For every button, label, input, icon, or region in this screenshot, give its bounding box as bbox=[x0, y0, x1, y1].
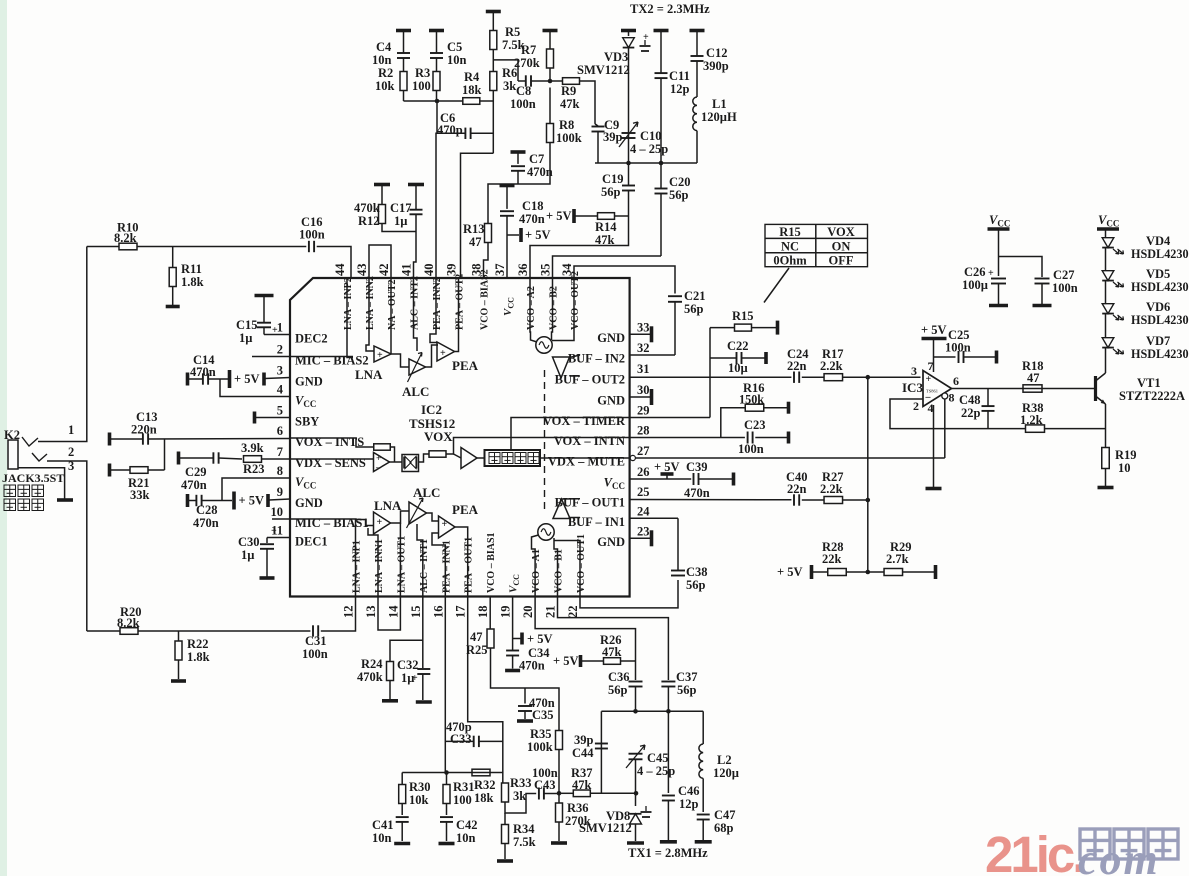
wire C23 to terminal bbox=[755, 437, 787, 439]
wire VOX amp to limiter bbox=[390, 461, 403, 463]
svg-text:C31: C31 bbox=[305, 634, 327, 648]
wire VCO1 left arm to pin20 bbox=[532, 535, 539, 597]
+5V terminal R28 bbox=[810, 565, 814, 579]
svg-text:PEA: PEA bbox=[452, 502, 479, 517]
svg-text:47: 47 bbox=[1027, 371, 1040, 385]
svg-text:15: 15 bbox=[409, 606, 423, 619]
wire Vcc to C26 C27 bbox=[998, 229, 1000, 276]
svg-text:3k: 3k bbox=[503, 79, 516, 93]
svg-text:C11: C11 bbox=[669, 69, 690, 83]
wire comparator to status box bbox=[477, 457, 485, 459]
VCO2 oscillator circle bbox=[536, 337, 552, 353]
svg-text:24: 24 bbox=[637, 504, 650, 518]
resistor R8 bbox=[549, 88, 551, 124]
svg-text:+ 5V: + 5V bbox=[525, 228, 551, 242]
wire pin27 row VDX-MUTE to op-amp pin8 bbox=[630, 455, 635, 460]
wire limiter to VOX series resistor bbox=[419, 454, 429, 462]
wire C25 to terminal bbox=[964, 356, 995, 358]
svg-text:2: 2 bbox=[277, 343, 283, 357]
buffer BUF2 triangle bbox=[553, 357, 570, 378]
resistor R33 bbox=[502, 773, 504, 784]
resistor R26 bbox=[604, 658, 621, 665]
resistor R15 bbox=[735, 324, 752, 331]
svg-text:OFF: OFF bbox=[829, 253, 854, 267]
svg-text:470n: 470n bbox=[193, 516, 219, 530]
svg-text:47k: 47k bbox=[560, 97, 580, 111]
svg-text:GND: GND bbox=[295, 496, 323, 510]
resistor R31 bbox=[446, 773, 448, 785]
jack K2 body bbox=[8, 440, 18, 469]
wire R35 to node bbox=[558, 750, 560, 794]
svg-text:40: 40 bbox=[422, 264, 436, 277]
variable capacitor C10 bbox=[622, 132, 636, 134]
wire pin29 VOX-TIMER to R15 riser bbox=[630, 417, 710, 419]
C34 ground bar bbox=[505, 669, 520, 673]
svg-text:21: 21 bbox=[544, 606, 558, 619]
capacitor C22 bbox=[736, 352, 738, 364]
junction dot VD8 node bbox=[634, 791, 639, 796]
svg-text:47: 47 bbox=[469, 235, 482, 249]
wire R29 to terminal bbox=[903, 571, 934, 573]
ALC arrow lower bbox=[407, 498, 424, 528]
svg-text:4 – 25p: 4 – 25p bbox=[637, 764, 675, 778]
bottom pin numbers 12-22 bbox=[342, 605, 581, 618]
IC3 ground stem bbox=[933, 405, 935, 487]
svg-text:VCC: VCC bbox=[508, 574, 522, 593]
wire C17 down to pin 41 bbox=[414, 215, 417, 279]
svg-text:19: 19 bbox=[499, 606, 513, 619]
wire IC3 output row bbox=[952, 388, 1095, 390]
svg-text:16: 16 bbox=[431, 606, 445, 619]
svg-text:120µ: 120µ bbox=[713, 766, 739, 780]
svg-text:HSDL4230: HSDL4230 bbox=[1131, 313, 1189, 327]
wire VCO2 left arm to pin36 bbox=[530, 278, 537, 342]
wire C22 leads and terminal bbox=[710, 357, 736, 359]
LED VD4 bbox=[1102, 238, 1114, 248]
svg-text:R30: R30 bbox=[409, 780, 431, 794]
svg-text:8.2k: 8.2k bbox=[114, 231, 137, 245]
svg-text:+ 5V: + 5V bbox=[546, 209, 572, 223]
svg-text:BUF – IN2: BUF – IN2 bbox=[568, 352, 625, 366]
svg-text:C23: C23 bbox=[744, 418, 766, 432]
svg-text:VCC: VCC bbox=[295, 475, 316, 491]
svg-text:C37: C37 bbox=[676, 670, 698, 684]
capacitor C7 bbox=[517, 152, 519, 164]
resistor R38 bbox=[1026, 425, 1045, 432]
svg-text:+ 5V: + 5V bbox=[654, 460, 680, 474]
capacitor C25 bbox=[934, 356, 956, 358]
inductor L1 bbox=[693, 97, 697, 131]
C26 ground bar bbox=[989, 304, 1008, 308]
svg-text:C32: C32 bbox=[397, 658, 419, 672]
capacitor C37 bbox=[661, 681, 675, 683]
LED VD5 bbox=[1102, 271, 1114, 281]
svg-text:4 – 25p: 4 – 25p bbox=[630, 142, 668, 156]
svg-text:VCC: VCC bbox=[604, 476, 625, 492]
wire R37 to VD8 node bbox=[559, 792, 573, 794]
svg-text:2.2k: 2.2k bbox=[820, 359, 843, 373]
wire C19 branch to pin 36 bbox=[530, 243, 629, 278]
capacitor C13 bbox=[142, 433, 144, 444]
wire pin34 to VCO2 bbox=[552, 278, 574, 341]
svg-text:32: 32 bbox=[637, 341, 650, 355]
svg-text:C26: C26 bbox=[964, 265, 986, 279]
svg-text:+: + bbox=[926, 374, 932, 385]
svg-text:33k: 33k bbox=[130, 488, 150, 502]
svg-text:2.7k: 2.7k bbox=[886, 552, 909, 566]
svg-text:470n: 470n bbox=[684, 486, 710, 500]
capacitor C41 bbox=[396, 816, 409, 818]
svg-text:100n: 100n bbox=[1052, 281, 1078, 295]
C46 ground bar bbox=[660, 840, 677, 844]
wire C24 to R17 bbox=[802, 376, 824, 378]
resistor R16 bbox=[745, 404, 764, 411]
wire C45 to VD8 bbox=[635, 759, 637, 806]
svg-text:+: + bbox=[442, 519, 448, 530]
svg-text:22n: 22n bbox=[787, 359, 807, 373]
svg-text:100n: 100n bbox=[299, 228, 325, 242]
svg-text:VD7: VD7 bbox=[1146, 334, 1170, 348]
capacitor C33 bbox=[473, 736, 475, 747]
svg-text:VCC: VCC bbox=[989, 213, 1010, 229]
wire SBY stub bbox=[256, 417, 291, 419]
svg-text:C47: C47 bbox=[714, 808, 736, 822]
capacitor C31 bbox=[312, 625, 314, 636]
svg-text:R11: R11 bbox=[181, 262, 202, 276]
pin 9 terminal bar bbox=[266, 494, 270, 507]
svg-text:R25: R25 bbox=[466, 643, 488, 657]
caption 入插座 fake glyphs bbox=[4, 499, 44, 511]
wire K2 ring down to R20 row bbox=[47, 461, 87, 631]
svg-text:47: 47 bbox=[470, 630, 483, 644]
wire C28 to +5V and pin8 branch bbox=[189, 500, 196, 502]
svg-text:R4: R4 bbox=[464, 70, 480, 84]
svg-text:6: 6 bbox=[953, 374, 959, 388]
svg-text:9: 9 bbox=[277, 485, 283, 499]
svg-text:C27: C27 bbox=[1053, 268, 1075, 282]
capacitor C17 terminal bbox=[408, 183, 424, 187]
svg-text:VD3: VD3 bbox=[604, 50, 628, 64]
wire K2 sleeve to ground bbox=[18, 468, 65, 499]
op-amp LNA upper bbox=[374, 346, 391, 362]
wire LNA output to pin42 and ALC bbox=[391, 354, 409, 367]
wire pin15 to ALC1 bbox=[417, 524, 423, 597]
svg-text:ALC: ALC bbox=[413, 485, 440, 500]
resistor R25 bbox=[487, 629, 494, 648]
capacitor C5 terminal bbox=[429, 29, 444, 33]
svg-text:3: 3 bbox=[277, 364, 283, 378]
svg-text:R35: R35 bbox=[530, 727, 552, 741]
svg-text:1µ: 1µ bbox=[394, 214, 407, 228]
svg-text:390p: 390p bbox=[703, 59, 729, 73]
wire pin25 row BUF-OUT1 to C40 bbox=[630, 499, 792, 501]
wire R15 leads and terminal bbox=[710, 327, 735, 329]
R11 bottom terminal bar bbox=[166, 305, 180, 309]
feedback row R38 wire bbox=[988, 428, 1026, 430]
svg-text:VCO – B1: VCO – B1 bbox=[554, 549, 565, 593]
op-amp ALC upper bbox=[409, 359, 426, 375]
svg-text:27: 27 bbox=[637, 444, 650, 458]
svg-text:VOX – INTS: VOX – INTS bbox=[295, 435, 364, 449]
svg-text:C7: C7 bbox=[529, 152, 544, 166]
svg-text:R36: R36 bbox=[567, 801, 589, 815]
wire pin9 stub bbox=[269, 499, 290, 500]
wire R17 to op-amp input bbox=[843, 376, 921, 378]
svg-text:1: 1 bbox=[68, 423, 74, 437]
wire R10 to C16 to pin44 bbox=[87, 246, 119, 248]
svg-text:VT1: VT1 bbox=[1137, 376, 1161, 390]
wire ALC1 out to PEA1 bbox=[427, 513, 439, 521]
capacitor C9 bbox=[594, 122, 596, 125]
svg-text:C35: C35 bbox=[532, 708, 554, 722]
svg-text:VD5: VD5 bbox=[1146, 267, 1170, 281]
+5V terminal pin19 bbox=[520, 633, 524, 645]
comparator triangle bbox=[461, 448, 477, 469]
wire C43 to node dot bbox=[544, 793, 559, 795]
svg-text:NC: NC bbox=[781, 239, 799, 253]
Vcc terminal C26 C27 bbox=[988, 227, 1010, 231]
svg-text:18k: 18k bbox=[462, 83, 482, 97]
junction dot VD8 node left bbox=[557, 791, 562, 796]
svg-text:28: 28 bbox=[637, 424, 650, 438]
svg-text:8: 8 bbox=[949, 391, 955, 405]
svg-text:68p: 68p bbox=[714, 821, 734, 835]
svg-text:C46: C46 bbox=[678, 784, 700, 798]
svg-text:R31: R31 bbox=[453, 780, 475, 794]
svg-text:33: 33 bbox=[637, 320, 650, 334]
svg-text:100k: 100k bbox=[527, 740, 553, 754]
resistor R32 bbox=[472, 769, 490, 776]
resistor R11 bbox=[169, 268, 176, 287]
wire pin22 to C38 riser bbox=[580, 580, 678, 608]
svg-text:C10: C10 bbox=[640, 129, 662, 143]
C32 ground bar bbox=[416, 700, 432, 704]
svg-text:470k: 470k bbox=[357, 670, 383, 684]
capacitor C15 electrolytic bbox=[263, 296, 265, 323]
wire pin 23 stub and gnd tick bbox=[630, 537, 650, 539]
wire pin26 row Vcc bbox=[630, 478, 692, 480]
junction dot R28 R29 node bbox=[866, 570, 871, 575]
wire VT1 emitter down bbox=[1105, 404, 1107, 448]
svg-text:LNA: LNA bbox=[355, 367, 383, 382]
svg-text:R33: R33 bbox=[510, 776, 532, 790]
resistor R34 bbox=[504, 813, 506, 825]
op-amp IC3 triangle bbox=[923, 371, 952, 407]
top pin internal labels bbox=[343, 269, 581, 330]
svg-text:+ 5V: + 5V bbox=[527, 632, 553, 646]
svg-text:+: + bbox=[988, 268, 994, 279]
svg-text:42: 42 bbox=[377, 264, 391, 277]
VCO1 oscillator circle bbox=[538, 524, 554, 540]
junction dot pin16 row bbox=[444, 770, 449, 775]
capacitor C7 terminal bbox=[511, 150, 526, 154]
capacitor C15 top terminal bbox=[255, 294, 274, 298]
svg-text:R15: R15 bbox=[732, 309, 754, 323]
wire R26 leads bbox=[582, 660, 604, 662]
svg-text:VCO – B2: VCO – B2 bbox=[549, 286, 560, 330]
wire VOX-INTS internal with feedback resistor bbox=[290, 438, 374, 447]
wire ALC out to PEA bbox=[426, 345, 439, 367]
resistor R5 terminal bbox=[486, 10, 501, 14]
svg-text:7: 7 bbox=[277, 445, 283, 459]
svg-text:100n: 100n bbox=[510, 97, 536, 111]
wire pin18 down through R25 bbox=[489, 597, 491, 629]
svg-text:22n: 22n bbox=[787, 482, 807, 496]
svg-text:LNA – OUT1: LNA – OUT1 bbox=[396, 536, 407, 593]
svg-text:26: 26 bbox=[637, 465, 650, 479]
svg-text:39p: 39p bbox=[603, 130, 623, 144]
svg-text:C4: C4 bbox=[376, 40, 392, 54]
svg-text:C33: C33 bbox=[450, 732, 472, 746]
svg-text:C22: C22 bbox=[727, 339, 749, 353]
svg-text:R32: R32 bbox=[474, 778, 496, 792]
wire C44 branch bbox=[600, 711, 602, 793]
capacitor C28 bbox=[186, 494, 190, 507]
feedback resistor VOX small bbox=[374, 444, 391, 450]
capacitor C46 bbox=[667, 711, 669, 793]
varactor VD3 terminal bbox=[621, 29, 636, 33]
wire C13 row to pin 6 bbox=[111, 438, 143, 440]
svg-text:2: 2 bbox=[913, 399, 919, 413]
resistor R12 terminal bbox=[374, 183, 390, 187]
svg-text:PEA – OUT1: PEA – OUT1 bbox=[464, 537, 475, 593]
svg-text:100k: 100k bbox=[556, 131, 582, 145]
wire R11 taps bbox=[172, 247, 174, 268]
buffer BUF1 triangle bbox=[553, 499, 570, 519]
wire pin16 long vertical bbox=[444, 597, 446, 773]
svg-text:TX2 = 2.3MHz: TX2 = 2.3MHz bbox=[630, 2, 710, 16]
junction dot R2 R3 R4 bbox=[435, 99, 440, 104]
svg-text:C45: C45 bbox=[647, 751, 669, 765]
capacitor C18 bbox=[506, 186, 508, 209]
svg-text:6: 6 bbox=[277, 424, 283, 438]
capacitor C24 bbox=[793, 372, 795, 383]
svg-text:29: 29 bbox=[637, 404, 650, 418]
wire pin13 pin14 bridge bbox=[378, 597, 400, 631]
IC2 TSHS12 package outline bbox=[290, 278, 630, 597]
svg-text:SMV1212: SMV1212 bbox=[577, 63, 630, 77]
wire R14 to C19 line bbox=[575, 215, 598, 217]
table pointer line bbox=[764, 268, 789, 303]
svg-text:VCC: VCC bbox=[1098, 213, 1119, 229]
svg-text:+ 5V: + 5V bbox=[239, 494, 265, 508]
svg-text:22p: 22p bbox=[961, 406, 981, 420]
wire pin2 stub bbox=[252, 356, 290, 358]
VOX series resistor bbox=[429, 451, 446, 457]
svg-text:+ 5V: + 5V bbox=[777, 565, 803, 579]
resistor R22 bbox=[175, 641, 182, 660]
resistor R27 bbox=[824, 497, 843, 504]
wire pin17 to C33 riser bbox=[468, 597, 503, 773]
svg-text:8.2k: 8.2k bbox=[117, 616, 140, 630]
wire R8 bottom to C7 branch bbox=[488, 143, 550, 224]
svg-text:+: + bbox=[271, 526, 277, 537]
op-amp VOX detector bbox=[374, 453, 390, 472]
wire MIC-BIAS2 internal bbox=[290, 356, 353, 358]
svg-text:C39: C39 bbox=[686, 460, 708, 474]
svg-text:MIC – BIAS2: MIC – BIAS2 bbox=[295, 354, 369, 368]
svg-text:56p: 56p bbox=[608, 683, 628, 697]
svg-text:HSDL4230: HSDL4230 bbox=[1131, 347, 1189, 361]
wire R13 to pin 38 bbox=[484, 243, 489, 279]
svg-text:VD6: VD6 bbox=[1146, 300, 1170, 314]
R36 ground bar bbox=[551, 841, 567, 845]
svg-text:1µ: 1µ bbox=[241, 548, 254, 562]
LED VD7 bbox=[1102, 338, 1114, 348]
svg-text:VCO – BIAS2: VCO – BIAS2 bbox=[480, 269, 491, 330]
svg-text:10n: 10n bbox=[447, 53, 467, 67]
svg-text:C12: C12 bbox=[706, 46, 728, 60]
svg-text:100: 100 bbox=[453, 793, 472, 807]
right pin numbers 33-23 bbox=[637, 320, 650, 538]
junction dot R27 node bbox=[866, 498, 871, 503]
+5V tap on pin26 row bbox=[666, 475, 668, 479]
wire BUF1 output pin25 row bbox=[562, 498, 581, 500]
svg-text:BUF – OUT2: BUF – OUT2 bbox=[555, 372, 625, 386]
svg-text:0Ohm: 0Ohm bbox=[773, 253, 807, 267]
capacitor C42 bbox=[440, 816, 453, 818]
svg-text:DEC2: DEC2 bbox=[295, 332, 328, 346]
capacitor C16 bbox=[308, 241, 310, 252]
svg-text:43: 43 bbox=[355, 264, 369, 277]
wire VT1 collector to LED chain bbox=[1105, 356, 1107, 373]
resistor R4 bbox=[463, 98, 480, 105]
capacitor C18 terminal bbox=[500, 184, 515, 188]
wire BUF1 input pin24 row bbox=[570, 517, 580, 519]
svg-text:+ 5V: + 5V bbox=[553, 654, 579, 668]
svg-text:120µH: 120µH bbox=[701, 110, 737, 124]
svg-text:1.2k: 1.2k bbox=[1020, 413, 1043, 427]
pin 3 terminal bar bbox=[262, 373, 266, 386]
wire feedback resistor to VOX amp output bbox=[390, 447, 395, 462]
svg-text:VCC: VCC bbox=[502, 297, 516, 316]
svg-text:8: 8 bbox=[277, 464, 283, 478]
svg-text:C30: C30 bbox=[238, 535, 260, 549]
LED VD6 bbox=[1102, 304, 1114, 314]
wire pin44 to MIC-BIAS2 row bbox=[347, 278, 353, 358]
svg-text:VCO – OUT1: VCO – OUT1 bbox=[576, 534, 587, 593]
resistor R9 bbox=[563, 78, 580, 85]
wire BUF2 output pin31 row bbox=[570, 375, 581, 377]
svg-text:22: 22 bbox=[566, 606, 580, 619]
wire VDX-SENS internal bbox=[290, 458, 374, 460]
capacitor C12 terminal bbox=[690, 29, 705, 33]
svg-text:VOX: VOX bbox=[827, 225, 855, 239]
capacitor C44 bbox=[595, 743, 608, 745]
svg-text:C42: C42 bbox=[456, 818, 478, 832]
svg-text:GND: GND bbox=[597, 331, 625, 345]
op-amp PEA lower bbox=[439, 516, 456, 538]
ground for jack sleeve bbox=[57, 498, 73, 502]
wire R21 leads bbox=[111, 469, 130, 471]
resistor R21 bbox=[130, 467, 148, 474]
svg-text:20: 20 bbox=[521, 606, 535, 619]
junction dot R17 node bbox=[866, 375, 871, 380]
svg-text:56p: 56p bbox=[601, 185, 621, 199]
wire status box top to VOX-TIMER pin29 bbox=[511, 418, 630, 451]
ALC arrow upper bbox=[408, 353, 423, 383]
svg-text:C17: C17 bbox=[390, 201, 412, 215]
status control box 状态控制 bbox=[485, 450, 541, 466]
wire R27 to node bbox=[843, 499, 868, 501]
svg-text:C28: C28 bbox=[196, 503, 218, 517]
wire pin40 bracket to PEA bbox=[430, 278, 437, 343]
wire MIC-BIAS1 internal to LNA1 bbox=[290, 518, 356, 521]
wire R33 jog to C43 row bbox=[505, 794, 536, 814]
wire VCO2 right arm to pin35 bbox=[552, 278, 553, 340]
varactor diode VD3 bbox=[628, 31, 630, 37]
capacitor C6 bbox=[464, 128, 466, 139]
